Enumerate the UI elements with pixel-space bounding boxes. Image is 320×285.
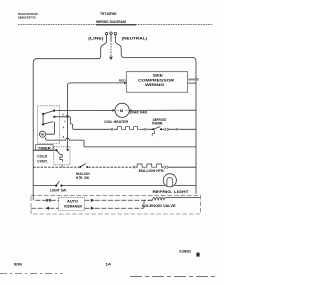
mullion heater resistor R2 (square bumps) <box>137 164 161 167</box>
svg-text:COIL HEATER: COIL HEATER <box>104 120 129 124</box>
connector x on evap row left of motor <box>112 109 114 111</box>
timer pivot bus wire <box>42 114 44 124</box>
svg-text:WHITE: WHITE <box>189 77 200 81</box>
defrost thermostat S2 <box>152 127 169 137</box>
wire: cold control output riser to timer (node 1) <box>66 110 68 148</box>
svg-text:REFRIG. LIGHT: REFRIG. LIGHT <box>153 190 189 194</box>
solenoid valve coil L1 <box>152 197 200 200</box>
header: publication number text <box>18 12 39 20</box>
TIMER label box <box>36 145 54 151</box>
timer blade contact 2 <box>43 111 54 114</box>
svg-text:(NEUTRAL): (NEUTRAL) <box>122 37 149 41</box>
svg-text:14: 14 <box>105 263 111 267</box>
cold control thermostat switch S1 <box>57 150 63 162</box>
connector x on cold control riser <box>66 115 68 117</box>
label COLD CONT. <box>37 155 48 164</box>
connector x defrost row right <box>176 128 178 130</box>
connector x mullion row left <box>133 166 135 168</box>
wire: WHITE lead compressor to neutral rail <box>188 82 196 84</box>
coil heater resistor R1 (square bumps) <box>118 127 142 130</box>
wire: cold control case to mullion feed <box>61 165 63 167</box>
svg-text:SOLENOID VALVE: SOLENOID VALVE <box>142 204 176 208</box>
svg-text:2: 2 <box>62 113 64 116</box>
wire: timer terminal 4 to defrost row <box>54 117 77 130</box>
wire: defrost row (coil heater / defrost thermostat) <box>77 128 196 130</box>
svg-text:5995278779: 5995278779 <box>18 16 36 20</box>
ground drop wire (dash-dot) <box>110 40 112 56</box>
footer cut line left <box>0 273 63 275</box>
wire: RED lead riser to compressor (node from timer terminal bus) <box>67 83 126 111</box>
refrigerator light lamp DS1 <box>163 174 176 187</box>
svg-text:TM: TM <box>40 133 44 137</box>
cabinet boundary dashed enclosure <box>31 195 200 214</box>
svg-text:CONT.: CONT. <box>37 160 48 164</box>
timer blade contact 4 <box>43 122 53 125</box>
wire: NEUTRAL from plug to right rail <box>115 40 196 194</box>
svg-text:AUTO: AUTO <box>67 199 79 203</box>
power plug prong L <box>105 32 107 40</box>
svg-text:1: 1 <box>64 120 66 123</box>
svg-text:(LINE): (LINE) <box>88 37 104 41</box>
svg-text:RED: RED <box>119 78 127 82</box>
wire: refrigerator light row <box>33 185 196 187</box>
label MULLION HTR. SW. <box>76 172 90 180</box>
label SEE COMPRESSOR WIRING <box>138 73 174 88</box>
connector x on evap row right of motor <box>130 109 132 111</box>
evap fan motor M1 <box>115 103 129 117</box>
inline connector (plug pair) on row 1 <box>46 199 50 203</box>
evap motor brush arcs <box>117 109 128 112</box>
timer terminal dots <box>42 110 55 126</box>
svg-text:HTR. SW.: HTR. SW. <box>76 176 90 180</box>
harness arrow row 2 right <box>91 207 95 210</box>
wire: timer motor return to neutral rail (with hop over riser) <box>46 137 196 147</box>
svg-text:ICEMAKER: ICEMAKER <box>64 204 83 208</box>
label DEFROST THERM. <box>152 118 167 126</box>
wire: icemaker feed row 2 <box>31 200 152 208</box>
svg-text:9/96: 9/96 <box>14 263 22 267</box>
svg-text:MULLION HTR.: MULLION HTR. <box>139 169 165 173</box>
svg-text:LIGHT SW.: LIGHT SW. <box>50 188 67 192</box>
svg-text:TRT18FNE: TRT18FNE <box>100 12 117 16</box>
harness arrow row 1 right <box>91 199 95 202</box>
connector x defrost row left <box>111 128 113 130</box>
wire: evap fan row (timer terminal 2 to motor to neutral rail) <box>54 109 115 111</box>
svg-text:THERM.: THERM. <box>152 122 164 126</box>
connector x defrost row mid <box>144 128 146 130</box>
wire: line rail to cold control <box>33 149 56 151</box>
footer cut line right <box>130 276 218 278</box>
connector x mullion row right <box>164 166 168 169</box>
wire: icemaker feed row 1 <box>33 195 152 200</box>
wire: mullion heater row <box>33 166 132 168</box>
mullion heater switch S3 <box>80 164 85 167</box>
power plug prong ground (middle) <box>110 32 112 40</box>
power plug prong N <box>114 32 116 40</box>
timer motor feed wire <box>46 122 55 134</box>
ground arrow head <box>109 57 113 61</box>
svg-text:TIMER: TIMER <box>38 146 52 150</box>
header rule <box>18 24 213 26</box>
defrost timer box TM (dashed) <box>38 106 60 144</box>
auto icemaker box (dashed) <box>59 197 85 210</box>
compressor reference box U1 <box>126 72 187 93</box>
svg-text:3: 3 <box>63 136 65 139</box>
svg-text:COLD: COLD <box>37 155 48 159</box>
timer motor TM <box>40 131 46 137</box>
svg-text:EVAP. FAN: EVAP. FAN <box>130 110 148 114</box>
svg-text:S198832: S198832 <box>179 249 191 253</box>
light switch S4 <box>56 181 59 185</box>
svg-text:4: 4 <box>63 127 65 130</box>
svg-text:M: M <box>120 108 123 113</box>
connector x on RED lead <box>124 82 126 84</box>
footer: page-edge blob <box>196 253 199 257</box>
cold control box (dashed) <box>54 147 70 165</box>
svg-text:WIRING: WIRING <box>145 82 164 87</box>
wire: LINE from plug to left rail <box>33 40 106 195</box>
svg-text:WIRING DIAGRAM: WIRING DIAGRAM <box>96 20 126 24</box>
cold control terminal dots <box>55 149 68 152</box>
label AUTO ICEMAKER <box>64 199 83 208</box>
harness arrow row 2 left <box>45 207 49 210</box>
